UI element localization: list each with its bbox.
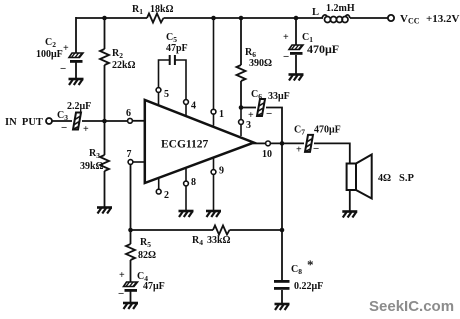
pin 1 — [211, 16, 216, 21]
wire: top rail left segment — [76, 17, 147, 19]
wire: rail to C1 — [295, 18, 297, 45]
node: rail/R2 junction — [102, 16, 107, 21]
svg-text:+: + — [83, 124, 89, 135]
wire: pin 7 down to feedback node — [130, 164, 132, 230]
capacitor C5 47pF (between pins 5 and 4) — [159, 60, 170, 88]
svg-text:VCC: VCC — [400, 13, 420, 26]
resistor R3 39k ohm — [100, 155, 109, 171]
svg-text:+: + — [248, 110, 254, 121]
wire: junction to R5 — [130, 230, 132, 244]
svg-text:ECG1127: ECG1127 — [161, 139, 209, 151]
capacitor C7 470uF — [305, 135, 313, 152]
svg-text:0.22μF: 0.22μF — [294, 281, 323, 292]
node: output junction — [280, 141, 285, 146]
wire: R6 to C6 node — [240, 81, 242, 108]
svg-text:1.2mH: 1.2mH — [326, 3, 355, 14]
wire: pin 8 to ground — [185, 186, 187, 211]
ground (speaker) — [342, 212, 357, 218]
svg-text:+13.2V: +13.2V — [426, 13, 460, 25]
svg-text:39kΩ: 39kΩ — [80, 161, 104, 172]
svg-text:C6: C6 — [251, 89, 262, 101]
svg-text:470μF: 470μF — [307, 42, 339, 56]
wire: output node down to C8 — [281, 143, 283, 230]
svg-text:SeekIC.com: SeekIC.com — [369, 298, 454, 315]
svg-text:C8: C8 — [291, 264, 302, 276]
svg-text:10: 10 — [262, 149, 272, 160]
node: C6/pin3 junction — [239, 105, 244, 110]
capacitor C8 0.22uF — [274, 280, 290, 283]
ground (R3) — [97, 208, 112, 214]
ground (C4) — [123, 303, 138, 309]
node: rail/C1 junction — [294, 16, 299, 21]
svg-text:−: − — [283, 51, 289, 63]
svg-text:R5: R5 — [140, 237, 151, 249]
resistor R4 33k ohm — [213, 226, 230, 235]
wire: input terminal to C3 — [52, 120, 72, 122]
pin 3 — [240, 108, 242, 120]
wire: rail to R6 — [240, 18, 242, 65]
svg-text:6: 6 — [126, 108, 131, 119]
resistor R2 22k ohm — [100, 49, 109, 65]
ground (C1) — [289, 75, 304, 81]
speaker SP 4 ohm — [347, 164, 356, 191]
input terminal — [46, 118, 52, 124]
svg-text:−: − — [266, 108, 272, 120]
wire: C6 to output node — [266, 108, 282, 144]
svg-text:2.2μF: 2.2μF — [67, 101, 91, 112]
Vcc terminal — [388, 15, 394, 21]
wire: C1 to ground — [295, 55, 297, 75]
pin 9 — [213, 158, 215, 169]
svg-text:C2: C2 — [45, 37, 56, 49]
svg-text:R3: R3 — [89, 148, 100, 160]
svg-text:2: 2 — [164, 190, 169, 201]
svg-text:−: − — [60, 63, 66, 75]
svg-text:8: 8 — [191, 177, 196, 188]
capacitor C3 2.2uF — [73, 113, 81, 130]
wire: input node to R3 — [104, 121, 106, 155]
wire: junction to R4 — [131, 229, 214, 231]
svg-text:82Ω: 82Ω — [138, 250, 156, 261]
svg-text:*: * — [307, 257, 314, 272]
svg-text:R1: R1 — [132, 4, 143, 16]
svg-text:+: + — [63, 43, 69, 54]
wire: R4 to C8 node — [230, 229, 283, 231]
svg-text:470μF: 470μF — [314, 125, 341, 136]
wire: C7 to speaker — [314, 143, 350, 163]
wire: C2 to ground — [75, 62, 77, 79]
wire: R5 to C4 — [130, 260, 132, 282]
pin 4 — [185, 104, 187, 115]
svg-text:−: − — [61, 122, 67, 134]
svg-text:18kΩ: 18kΩ — [150, 4, 174, 15]
wire: junction to C6 — [241, 107, 256, 109]
resistor R6 390 ohm — [237, 65, 246, 81]
svg-text:33kΩ: 33kΩ — [207, 235, 231, 246]
ground (C2) — [69, 79, 84, 85]
pin 2 — [158, 177, 160, 189]
capacitor C6 33uF — [257, 99, 265, 116]
pin 6 — [128, 118, 133, 123]
svg-text:7: 7 — [127, 149, 132, 160]
resistor R1 18k ohm (series in top rail) — [147, 14, 164, 23]
svg-text:+: + — [283, 32, 289, 43]
svg-text:5: 5 — [164, 89, 169, 100]
pin 10 (output) — [253, 142, 266, 144]
wire: rail to R2 — [104, 18, 106, 49]
svg-text:S.P: S.P — [399, 173, 414, 184]
wire: C3 to pin 6 — [82, 120, 128, 122]
wire: pin 9 to ground — [213, 174, 215, 211]
svg-text:4Ω: 4Ω — [378, 173, 391, 184]
svg-text:47μF: 47μF — [143, 281, 165, 292]
svg-text:−: − — [118, 288, 124, 300]
svg-text:−: − — [313, 143, 319, 155]
op-amp U1 ECG1127 — [145, 100, 254, 183]
svg-text:22kΩ: 22kΩ — [112, 60, 136, 71]
svg-text:+: + — [296, 145, 302, 156]
wire: from rail down to C2 — [75, 17, 77, 53]
node: input junction (R2/R3) — [102, 119, 107, 124]
node: rail/R6 junction — [239, 16, 244, 21]
svg-text:3: 3 — [246, 120, 251, 131]
inductor L 1.2mH — [322, 15, 350, 23]
node: pin7/R5/R4 junction — [128, 228, 133, 233]
wire: pin 6 to triangle — [132, 120, 145, 122]
capacitor C4 47uF — [124, 282, 138, 292]
svg-text:IN PUT: IN PUT — [5, 117, 43, 128]
node: R4/C8 junction — [280, 228, 285, 233]
wire: R2 to input node — [104, 65, 106, 121]
svg-text:100μF: 100μF — [36, 49, 63, 60]
svg-text:47pF: 47pF — [166, 43, 188, 54]
capacitor C2 100uF — [69, 53, 83, 63]
svg-text:390Ω: 390Ω — [249, 58, 272, 69]
resistor R5 82 ohm — [126, 244, 135, 260]
ground (pin 8) — [179, 211, 194, 217]
wire: C4 to ground — [130, 291, 132, 303]
wire: speaker to ground — [349, 190, 351, 212]
wire: top rail right segment to Vcc — [350, 17, 388, 19]
svg-text:+: + — [119, 270, 125, 281]
wire: top rail middle segment — [164, 17, 324, 19]
pin 8 — [185, 169, 187, 182]
ground (pin 9) — [206, 211, 221, 217]
wire: R3 to ground — [104, 171, 106, 208]
svg-text:1: 1 — [219, 109, 224, 120]
ground (C8) — [275, 304, 290, 310]
svg-text:4: 4 — [191, 101, 196, 112]
svg-text:9: 9 — [219, 166, 224, 177]
wire: pin10 to C7 — [270, 142, 304, 144]
capacitor C1 470uF — [289, 45, 303, 55]
pin 5 — [158, 92, 160, 105]
svg-text:33μF: 33μF — [268, 91, 290, 102]
svg-text:L: L — [312, 7, 319, 18]
svg-text:R2: R2 — [112, 48, 123, 60]
svg-text:R4: R4 — [192, 235, 203, 247]
svg-text:C7: C7 — [294, 125, 305, 137]
wire: C8 to ground — [281, 290, 283, 304]
pin 7 — [128, 160, 133, 165]
